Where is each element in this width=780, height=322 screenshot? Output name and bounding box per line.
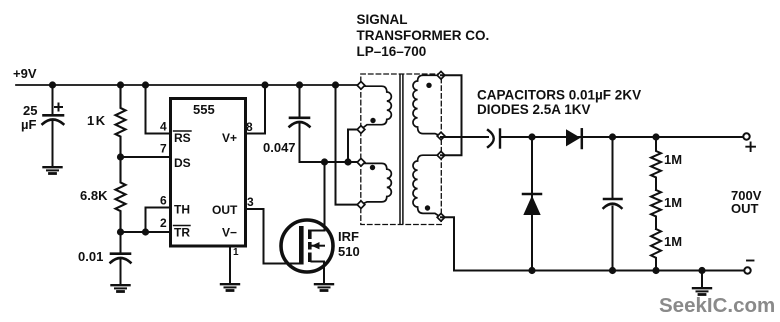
node 1K tap <box>117 81 124 88</box>
node pin4 tap <box>142 81 149 88</box>
capacitor 25uF leads <box>52 85 54 114</box>
svg-text:OUT: OUT <box>212 203 238 217</box>
wire pin 8 <box>246 85 266 134</box>
svg-text:555: 555 <box>193 102 215 117</box>
wire pin 4 <box>146 85 171 134</box>
wire drain <box>324 162 326 230</box>
phase dot secondary lower <box>425 205 430 210</box>
wire primary lower bypass <box>336 85 359 205</box>
terminal diamonds right <box>437 71 445 79</box>
resistor 6.8K <box>116 157 126 232</box>
wire +9V rail <box>16 84 358 86</box>
terminal diamonds left <box>357 82 365 90</box>
diode D1 shunt <box>523 193 541 196</box>
transformer T1 dashed box <box>361 74 442 225</box>
node shunt cap bottom <box>609 267 616 274</box>
wire output top <box>441 136 488 138</box>
primary winding upper <box>361 86 391 129</box>
wire upper primary return <box>348 130 358 163</box>
wire pin 7 <box>121 156 171 158</box>
gate bar <box>299 226 304 265</box>
phase dot primary lower <box>370 165 375 170</box>
capacitor C coupling <box>488 130 494 147</box>
svg-text:1M: 1M <box>664 195 682 210</box>
svg-text:DS: DS <box>174 156 191 170</box>
node 25uF tap <box>49 81 56 88</box>
secondary winding upper <box>413 75 441 136</box>
svg-text:SIGNAL: SIGNAL <box>357 12 408 27</box>
svg-text:LP–16–700: LP–16–700 <box>357 44 427 59</box>
primary winding lower <box>361 163 391 204</box>
svg-text:RS: RS <box>174 131 191 145</box>
svg-text:7: 7 <box>160 142 167 156</box>
svg-text:+9V: +9V <box>13 66 37 81</box>
op-amp/timer U1 555 box <box>171 99 246 247</box>
resistor R 1M (middle) <box>651 190 661 229</box>
resistor R 1M (bottom) <box>651 229 661 271</box>
node resistor chain bottom <box>652 267 659 274</box>
wire secondary bottom rail <box>441 217 745 270</box>
svg-text:6: 6 <box>160 194 167 208</box>
wire V- pin1 <box>229 246 231 283</box>
svg-text:IRF: IRF <box>338 229 359 244</box>
wire pin 2 <box>121 231 171 233</box>
svg-text:DIODES 2.5A 1KV: DIODES 2.5A 1KV <box>477 102 591 117</box>
svg-text:TR: TR <box>174 226 190 240</box>
resistor R 1M (top) <box>651 137 661 190</box>
node pin8 tap <box>261 81 268 88</box>
wire drain node <box>300 161 359 163</box>
svg-text:2: 2 <box>160 216 167 230</box>
capacitor 0.01 plates <box>111 252 130 255</box>
ground output <box>693 288 711 294</box>
wire pin 3 to gate <box>246 209 300 264</box>
node TR junction <box>117 228 124 235</box>
transistor Q1 IRF510 body <box>281 220 333 272</box>
diode D2 series <box>566 129 581 146</box>
node ground tap <box>698 267 705 274</box>
svg-text:1K: 1K <box>87 113 107 128</box>
terminal - output <box>744 267 750 273</box>
wire ground stem <box>701 271 703 288</box>
node D1 bottom <box>528 267 535 274</box>
capacitor shunt <box>612 137 614 198</box>
node shunt cap top <box>609 133 616 140</box>
body arrow <box>312 245 325 247</box>
phase dot primary upper <box>370 118 375 123</box>
phase dot secondary upper <box>426 83 431 88</box>
svg-text:25: 25 <box>23 103 37 118</box>
capacitor 0.01 leads <box>120 232 122 252</box>
svg-text:0.047: 0.047 <box>263 140 296 155</box>
ground source <box>315 284 333 290</box>
svg-text:SeekIC.com: SeekIC.com <box>659 294 775 317</box>
svg-text:1M: 1M <box>664 152 682 167</box>
secondary winding lower <box>413 155 441 217</box>
ground 0.01 <box>112 285 130 291</box>
channel bars <box>308 230 312 240</box>
ground 25uF <box>44 167 62 173</box>
capacitor 25uF plates <box>44 114 64 117</box>
node DS junction <box>117 153 124 160</box>
source lead <box>312 262 325 284</box>
capacitor 0.047 leads <box>299 85 301 116</box>
node resistor chain top <box>652 133 659 140</box>
polarity plus 25uF <box>55 104 62 111</box>
resistor 1K <box>116 85 126 157</box>
terminal + output <box>743 133 749 139</box>
svg-text:V+: V+ <box>222 131 237 145</box>
capacitor 0.047 plates <box>290 117 309 120</box>
node bypass tap <box>332 81 339 88</box>
transformer core <box>399 75 401 224</box>
svg-text:3: 3 <box>247 195 254 209</box>
svg-text:8: 8 <box>246 120 253 134</box>
svg-text:V−: V− <box>222 226 237 240</box>
svg-text:1M: 1M <box>664 234 682 249</box>
svg-text:1: 1 <box>233 247 239 258</box>
svg-text:OUT: OUT <box>731 201 759 216</box>
svg-text:0.01: 0.01 <box>78 249 103 264</box>
node 0.047 tap <box>296 81 303 88</box>
ground pin1 <box>221 284 239 290</box>
svg-text:6.8K: 6.8K <box>80 188 108 203</box>
svg-text:TH: TH <box>174 203 190 217</box>
svg-text:4: 4 <box>160 120 167 134</box>
wire pin 6 <box>146 208 171 233</box>
svg-text:CAPACITORS 0.01µF 2KV: CAPACITORS 0.01µF 2KV <box>477 88 641 103</box>
drain lead <box>312 230 325 232</box>
wire secondary series link <box>441 75 462 155</box>
svg-text:510: 510 <box>338 244 360 259</box>
wire D1 branch <box>531 137 533 271</box>
node drain junction <box>321 158 328 165</box>
node diode D1 top <box>528 133 535 140</box>
node upper primary return <box>344 158 351 165</box>
svg-text:TRANSFORMER CO.: TRANSFORMER CO. <box>357 28 490 43</box>
node TH branch <box>142 228 149 235</box>
svg-text:µF: µF <box>21 117 36 132</box>
